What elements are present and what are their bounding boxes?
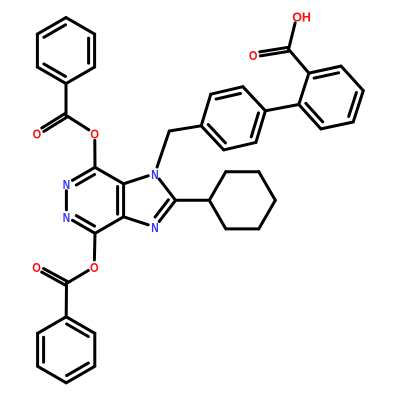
- pyridazine: double bond N5=C4: [73, 216, 96, 234]
- biphenyl linking bond E-F: [265, 105, 298, 111]
- atom label O5 hydroxyl OH: [292, 10, 311, 24]
- bond C8-O5 hydroxyl: [289, 23, 296, 49]
- phenyl ring A top-left: bond C-C: [66, 18, 95, 34]
- fusion double bond C4a=C7a: [118, 184, 124, 217]
- phenyl ring A: aromatic double bond: [89, 34, 95, 67]
- biphenyl ring F: bond C-C: [341, 66, 363, 91]
- svg-text:N: N: [63, 211, 70, 225]
- biphenyl ring E: aromatic double bond: [211, 87, 243, 99]
- svg-text:OH: OH: [292, 10, 311, 24]
- phenyl ring G: aromatic double bond: [38, 333, 44, 366]
- atom label O1 carbonyl oxygen: [33, 128, 42, 142]
- pyridazine: bond C7a-C7: [95, 167, 124, 184]
- imidazole: bond N3-C4a: [124, 217, 149, 225]
- biphenyl ring F: bond C-C: [299, 73, 309, 104]
- atom label N5: [63, 211, 70, 225]
- carbonyl double bond C9=O7: [42, 269, 68, 286]
- biphenyl ring F: aromatic double bond: [299, 103, 323, 128]
- svg-text:O: O: [33, 128, 42, 142]
- phenyl ring G: bond C-C: [93, 333, 96, 366]
- bond CH2 to biphenyl ring E: [169, 126, 201, 131]
- phenyl ring G: aromatic double bond: [66, 317, 95, 337]
- phenyl ring A: aromatic double bond: [37, 64, 66, 84]
- svg-text:N: N: [151, 221, 158, 235]
- atom label O2 ester oxygen: [90, 128, 99, 142]
- atom label O6 ester oxygen: [90, 261, 99, 275]
- pyridazine: bond N6-N5: [65, 191, 68, 210]
- svg-text:O: O: [90, 261, 99, 275]
- atom label N6: [63, 178, 70, 192]
- biphenyl ring E: bond C-C: [201, 94, 211, 126]
- bond C2 to cyclohexyl: [176, 199, 210, 202]
- imidazole: bond C7a-N1: [124, 176, 149, 184]
- pyridazine: double bond C7=N6: [73, 167, 96, 185]
- atom label N1: [151, 168, 158, 182]
- svg-text:O: O: [32, 261, 41, 275]
- biphenyl ring E: aromatic double bond: [251, 111, 265, 143]
- ester bond O6-C9: [67, 271, 89, 284]
- carbonyl double bond C1=O1: [42, 114, 67, 132]
- bond O2 to ring carbon C7: [93, 141, 96, 168]
- phenyl ring G: aromatic double bond: [66, 363, 95, 383]
- bond ring F to carboxyl C8: [289, 49, 309, 73]
- biphenyl ring E: aromatic double bond: [201, 125, 225, 150]
- phenyl ring A: bond C-C: [66, 67, 95, 84]
- imidazole: bond N1-C2: [159, 179, 175, 200]
- pyridazine: bond C4-C4a: [95, 217, 124, 234]
- biphenyl ring F: aromatic double bond: [309, 66, 341, 78]
- svg-text:O: O: [249, 49, 258, 63]
- biphenyl ring E: bond C-C: [224, 142, 256, 150]
- bond phenyl-A to carbonyl C1: [65, 84, 68, 116]
- bond C4 to ester oxygen O6: [93, 233, 97, 260]
- biphenyl ring F: bond C-C: [321, 122, 353, 129]
- phenyl ring A: aromatic double bond: [37, 18, 66, 38]
- bond C9 to phenyl ring G: [65, 283, 68, 316]
- bond N1-CH2 benzylic linker: [157, 131, 169, 167]
- biphenyl ring F: aromatic double bond: [349, 91, 364, 122]
- phenyl ring G: bond C-C: [38, 317, 67, 334]
- atom label O7 carbonyl oxygen: [32, 261, 41, 275]
- carboxyl double bond C8=O4: [260, 47, 289, 56]
- imidazole: double bond C2=N3: [155, 200, 176, 222]
- cyclohexane ring D: [209, 172, 275, 229]
- ester bond C1-O2: [66, 115, 89, 130]
- phenyl ring A: bond C-C: [36, 34, 39, 67]
- atom label N3: [151, 221, 158, 235]
- biphenyl ring E: bond C-C: [243, 87, 266, 111]
- atom label O4 carboxyl oxygen: [249, 49, 258, 63]
- phenyl ring G: bond C-C: [38, 366, 67, 383]
- svg-text:N: N: [151, 168, 158, 182]
